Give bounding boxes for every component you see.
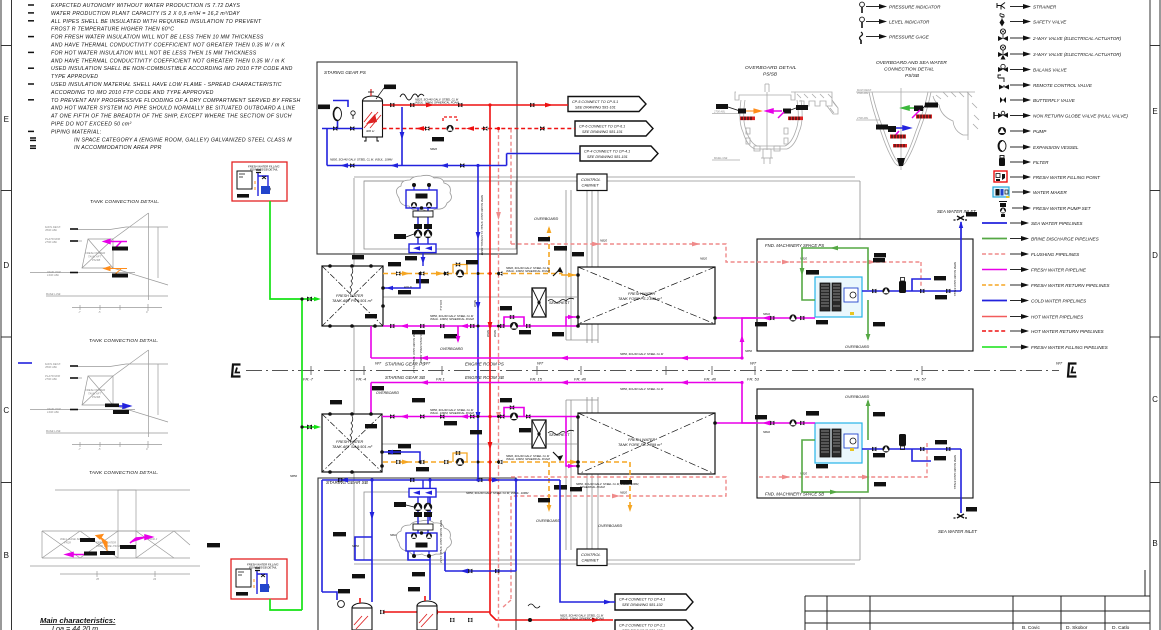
svg-text:WATER MAKER: WATER MAKER [1033,190,1067,195]
legend: remote control valve [998,75,1093,90]
svg-text:OVERBOARD: OVERBOARD [598,524,623,528]
svg-text:C: C [3,406,9,415]
svg-text:D: D [1152,251,1158,260]
svg-text:NB32: NB32 [763,430,770,434]
flushing dashed risers [499,129,928,630]
svg-text:FRESH WATER PUMP SET: FRESH WATER PUMP SET [1033,206,1092,211]
svg-text:FR. 57: FR. 57 [914,377,927,382]
control cabinet PS [577,174,607,191]
svg-text:CABINET: CABINET [582,183,600,188]
CP-2 bottom banner [615,620,693,630]
svg-text:NB20: NB20 [620,491,627,495]
fresh water tank AFT SB [322,414,382,472]
svg-text:FR. 40: FR. 40 [704,377,717,382]
svg-text:TANK AFT SB 9.501 m³: TANK AFT SB 9.501 m³ [332,445,373,449]
svg-text:TO PREVENT ANY PROGRESSIVE FLO: TO PREVENT ANY PROGRESSIVE FLOODING OF A… [51,98,301,104]
svg-text:TANK CONNECTION DETAIL.: TANK CONNECTION DETAIL. [89,338,159,344]
svg-text:OVERBOARD: OVERBOARD [536,519,561,523]
fresh water filling point top (red box) [232,162,287,201]
svg-text:BALANS VALVE: BALANS VALVE [1033,68,1068,73]
svg-text:PRESSURE GAGE: PRESSURE GAGE [889,35,930,40]
svg-text:INSUL. 10MM, SPHERICAL FOAM: INSUL. 10MM, SPHERICAL FOAM [506,269,550,273]
fresh water tank FORE SB [578,413,715,474]
fresh water pump set SB (cloud) [396,520,451,558]
svg-text:IN SPACE CATEGORY A (ENGINE RO: IN SPACE CATEGORY A (ENGINE ROOM, GALLEY… [74,137,292,143]
water maker PS [806,270,862,324]
overboard detail left stub [716,104,728,109]
legend: balans valve [998,64,1068,72]
svg-text:NB50 SCH40 GALV. STEEL CL.M: NB50 SCH40 GALV. STEEL CL.M [439,520,443,563]
svg-text:CONTROL: CONTROL [581,177,601,182]
svg-text:NB32: NB32 [763,312,770,316]
svg-text:NON RETURN GLOBE VALVE (HULL V: NON RETURN GLOBE VALVE (HULL VALVE) [1033,114,1128,119]
legend: fresh water filling pipelines [982,345,1109,351]
svg-text:1400 ABL: 1400 ABL [47,410,60,414]
detail 3 orange branch [96,535,107,552]
svg-text:PS/SB: PS/SB [92,258,100,262]
svg-text:USED INSULATION MATERIAL SHELL: USED INSULATION MATERIAL SHELL HAVE LOW … [51,82,282,88]
tank connection detail 3 drawing [30,490,200,577]
legend: filter [999,156,1049,167]
staring gear PS box [317,62,517,254]
svg-text:NB20: NB20 [430,147,437,151]
svg-text:FRESH WATER FILLING POINT: FRESH WATER FILLING POINT [1033,175,1101,180]
svg-text:AND HOT WATER SYSTEM NO PIPE S: AND HOT WATER SYSTEM NO PIPE SHOULD NORM… [50,106,296,112]
svg-text:TYPE APPROVED: TYPE APPROVED [51,74,98,80]
fresh water pump set PS (cloud) [396,175,451,211]
svg-text:PRESSURE INDICATOR: PRESSURE INDICATOR [889,5,941,10]
calorifier tag [384,85,396,90]
svg-text:B: B [1152,539,1157,548]
svg-text:OVERBOARD: OVERBOARD [376,391,399,395]
svg-text:2-WAY VALVE (ELECTRICAL ACTUAT: 2-WAY VALVE (ELECTRICAL ACTUATOR) [1032,36,1122,41]
legend: pressure indicator [860,2,941,13]
legend: non return globe valve [994,111,1128,119]
fresh water main PS [383,317,578,326]
legend: safety valve [1000,14,1068,27]
CP-6 banner [575,121,653,136]
detail 3 magenta branches [66,535,152,557]
svg-text:AND HAVE THERMAL CONDUCTIVITY: AND HAVE THERMAL CONDUCTIVITY COEFFICIEN… [50,58,285,64]
svg-text:AND HAVE THERMAL CONDUCTIVITY: AND HAVE THERMAL CONDUCTIVITY COEFFICIEN… [50,43,285,49]
svg-text:43: 43 [153,577,157,581]
svg-text:FLUSHING PIPELINES: FLUSHING PIPELINES [1031,252,1080,257]
svg-text:STRAINER: STRAINER [1033,5,1057,10]
svg-text:300 Lt: 300 Lt [366,129,375,133]
frame left strip [1,0,12,630]
svg-text:2700 ABL: 2700 ABL [44,377,58,381]
svg-text:FRESH WATER RETURN PIPELINES: FRESH WATER RETURN PIPELINES [1031,283,1110,288]
legend: fresh water pump set [999,202,1092,218]
hydrophore header PS [409,244,436,266]
svg-text:TANK FORE SB 2.899 m³: TANK FORE SB 2.899 m³ [618,443,662,447]
title block table [805,570,1150,630]
legend: hot water return pipelines [982,329,1105,335]
legend: brine discharge pipelines [982,236,1100,242]
svg-text:TANK AFT PS 9.501 m³: TANK AFT PS 9.501 m³ [332,299,373,303]
svg-text:OVERBOARD: OVERBOARD [534,217,559,221]
svg-text:E: E [1152,107,1157,116]
notes bullet dashes [28,5,36,148]
fresh water tank AFT PS [322,266,383,326]
svg-text:OVERBOARD: OVERBOARD [845,395,870,399]
detail 1 orange branch [104,267,127,277]
svg-text:2700 ABL: 2700 ABL [856,116,869,120]
svg-text:FR. 53: FR. 53 [747,377,760,382]
svg-text:REMOTE CONTROL VALVE: REMOTE CONTROL VALVE [1033,83,1093,88]
svg-text:1400 ABL: 1400 ABL [47,273,60,277]
svg-text:CP-5 CONNECT TO CP-5.1: CP-5 CONNECT TO CP-5.1 [572,100,618,104]
svg-text:FR.1: FR.1 [436,377,445,382]
svg-text:SEA WATER INLET: SEA WATER INLET [938,529,977,534]
svg-text:NB50: NB50 [745,349,752,353]
MAIN CHARACTERISTICS [40,616,116,630]
sea water inlet bottom [954,514,968,518]
svg-text:NB50, SCH40 GALV. STEEL CL.M,: NB50, SCH40 GALV. STEEL CL.M, INSUL. 10M… [466,491,529,495]
svg-text:CP-6 CONNECT TO CP-6.1: CP-6 CONNECT TO CP-6.1 [579,125,625,129]
svg-text:FRESH WATER: FRESH WATER [628,292,656,296]
svg-text:BASE LINE: BASE LINE [46,429,61,433]
svg-text:45: 45 [96,577,100,581]
svg-text:NB50, SCH40 GALV. STEEL CL.M: NB50, SCH40 GALV. STEEL CL.M [620,387,664,391]
svg-text:FOR HOT WATER INSULATION WILL: FOR HOT WATER INSULATION WILL NOT BE LES… [51,50,257,56]
frame right strip [1150,0,1160,630]
svg-text:PIPE DO NOT EXCEED 50 cm²: PIPE DO NOT EXCEED 50 cm² [51,122,132,128]
expansion vessel top box [334,108,342,121]
blue margin dash [18,362,32,364]
svg-text:PS/SB: PS/SB [92,395,100,399]
green line valves [307,297,312,302]
svg-text:WT: WT [537,361,544,366]
svg-text:WT: WT [750,361,757,366]
svg-text:FRESH WATER: FRESH WATER [628,438,656,442]
svg-text:HOT WATER RETURN PIPELINES: HOT WATER RETURN PIPELINES [1031,329,1105,334]
compartment labels [385,362,504,381]
svg-text:C: C [1152,395,1158,404]
legend: 3-way valve electrical actuator [998,45,1122,60]
svg-text:ALL PIPES SHELL BE INSULATED W: ALL PIPES SHELL BE INSULATED WITH REQUIR… [50,19,262,25]
svg-text:COLD WATER PIPELINES: COLD WATER PIPELINES [1031,299,1087,304]
SB cold water network [322,480,615,602]
main hot water risers [383,105,613,620]
sea water detail lower stub [876,125,888,130]
water maker SB [806,411,862,468]
machinery SB piping [802,401,868,492]
fresh water tank FORE PS [578,267,715,324]
svg-text:NB50: NB50 [290,474,297,478]
legend: butterfly valve [1000,97,1076,103]
svg-text:4500 ABL: 4500 ABL [45,365,58,369]
machinery PS piping [802,248,868,339]
svg-text:BASE LINE: BASE LINE [714,156,728,160]
FND machinery space SB box [757,389,973,498]
legend: sea water pipelines [982,221,1083,227]
top box blue piping [322,101,580,481]
svg-text:NB32: NB32 [473,300,477,307]
svg-text:FR. 15: FR. 15 [530,377,543,382]
legend: pump [998,127,1047,135]
svg-text:LEVEL INDICATOR: LEVEL INDICATOR [889,20,930,25]
svg-text:NB50 SCH40 GALV. STEEL CL.M: NB50 SCH40 GALV. STEEL CL.M [412,330,416,373]
legend: flushing pipelines [982,252,1080,258]
svg-text:NB50, SCH40 GALV. STEEL CL.M,: NB50, SCH40 GALV. STEEL CL.M, INSUL. 10M… [330,158,393,162]
svg-text:SAFETY VALVE: SAFETY VALVE [1033,20,1067,25]
svg-text:SEA WATER PIPELINES: SEA WATER PIPELINES [1031,221,1083,226]
svg-text:D. Skobor: D. Skobor [1066,625,1088,630]
svg-text:CP-4 CONNECT TO CP-4.1: CP-4 CONNECT TO CP-4.1 [584,150,630,154]
frame labels [303,377,927,382]
svg-text:HOLD ⌀: HOLD ⌀ [439,300,443,311]
hot water supply PS [383,104,569,106]
svg-text:CABINET: CABINET [582,558,600,563]
svg-text:PS/SB: PS/SB [763,72,778,78]
FND machinery space PS box [757,239,973,351]
svg-text:FRESH WATER: FRESH WATER [336,294,364,298]
green filling line riser [270,201,318,610]
svg-text:E: E [4,115,9,124]
junction dots on risers [488,272,491,482]
svg-text:PS/SB: PS/SB [905,73,920,79]
svg-text:4500 ABL: 4500 ABL [857,91,869,95]
svg-text:PIPING MATERIAL:: PIPING MATERIAL: [51,129,102,135]
detail 1 magenta branch [104,240,127,251]
pump columns PS [394,208,433,244]
svg-text:FROST R TEMPERATURE HIGHER THE: FROST R TEMPERATURE HIGHER THEN 60°C [51,27,174,33]
fresh water main SB [382,408,578,467]
svg-text:CONTROL: CONTROL [581,552,601,557]
svg-text:INSUL. 10MM, SPHERICAL FOAM: INSUL. 10MM, SPHERICAL FOAM [430,317,474,321]
legend: level indicator [860,17,930,28]
seachest SB [532,420,570,448]
WT labels [375,361,1063,366]
legend: water maker [993,187,1067,198]
magenta from water maker SB [742,422,815,424]
svg-text:FILTER: FILTER [1033,160,1049,165]
svg-text:NB50 SCH40 GALV.STEEL: NB50 SCH40 GALV.STEEL [953,455,957,490]
svg-text:EXPANSION VESSEL: EXPANSION VESSEL [1033,145,1079,150]
svg-text:AT ONE FIFTH OF THE BREADTH OF: AT ONE FIFTH OF THE BREADTH OF THE SHIP,… [50,114,292,120]
hot water calorifier PS [363,89,383,141]
svg-text:FRESH WATER: FRESH WATER [336,440,364,444]
seachest hoses [548,298,574,302]
svg-text:-5: -5 [98,447,101,451]
svg-text:NB32: NB32 [486,330,490,337]
svg-text:SEE DRAWING 581-101: SEE DRAWING 581-101 [587,155,628,159]
zone letters right [1152,107,1158,548]
svg-text:NB20: NB20 [800,257,807,261]
svg-text:NB20: NB20 [600,239,607,243]
svg-text:NB50 SCH40 GALV.STEEL: NB50 SCH40 GALV.STEEL [953,262,957,297]
centreline [246,370,1059,372]
svg-text:NB50: NB50 [352,544,359,548]
svg-text:FRESH WATER FILLING PIPELINES: FRESH WATER FILLING PIPELINES [1031,345,1109,350]
circulation pump [446,125,453,132]
svg-text:TANK CONNECTION DETAIL.: TANK CONNECTION DETAIL. [89,470,159,476]
svg-text:-7: -7 [78,447,81,451]
svg-text:POINT PS/SB DETAIL: POINT PS/SB DETAIL [250,168,278,172]
legend: fresh water pipeline [982,267,1087,273]
svg-text:B: B [4,551,9,560]
overboard detail right stub [796,105,808,110]
svg-text:CP-2 CONNECT TO CP-2.1: CP-2 CONNECT TO CP-2.1 [619,624,665,628]
svg-text:ACCORDING TO IMO 2010 FTP CODE: ACCORDING TO IMO 2010 FTP CODE AND TYPE … [50,90,214,96]
svg-text:FRESH WATER PIPELINE: FRESH WATER PIPELINE [1031,268,1087,273]
svg-text:NB20: NB20 [700,257,707,261]
legend: hot water pipelines [982,314,1084,320]
hose top [400,94,424,100]
svg-text:OVERBOARD DETAIL: OVERBOARD DETAIL [745,65,797,71]
svg-text:WATER PRODUCTION PLANT CAPACIT: WATER PRODUCTION PLANT CAPACITY IS 2 X 0… [51,11,240,17]
svg-text:BUTTERFLY VALVE: BUTTERFLY VALVE [1033,98,1076,103]
svg-text:TANK CONNECTION DETAIL.: TANK CONNECTION DETAIL. [90,199,160,205]
legend: fresh water return pipelines [982,283,1110,289]
svg-text:NB20: NB20 [800,472,807,476]
tank connection detail 2 drawing [30,350,168,448]
svg-text:SPHERICAL FOAM: SPHERICAL FOAM [580,485,605,489]
svg-text:Loa = 44.20 m: Loa = 44.20 m [52,624,98,630]
orange flushing line SB [383,462,630,510]
svg-text:OVERBOARD: OVERBOARD [440,347,463,351]
svg-text:CONNECTION DETAIL: CONNECTION DETAIL [884,67,934,73]
svg-text:SEE DRAWING 581-101: SEE DRAWING 581-101 [582,130,623,134]
legend: cold water pipelines [982,298,1087,304]
svg-text:D. Catlo: D. Catlo [1112,625,1130,630]
svg-text:2700 ABL: 2700 ABL [713,110,726,114]
hydrophore header SB [409,480,436,497]
CP-4 banner [580,146,658,161]
seachest PS [532,288,570,317]
svg-text:INSUL. 15MM, SPHERICAL FOAM: INSUL. 15MM, SPHERICAL FOAM [560,617,604,621]
fresh water filling point bottom (red box) [231,559,287,599]
legend: 2-way valve electrical actuator [998,29,1122,41]
svg-text:OVERBOARD: OVERBOARD [845,345,870,349]
svg-text:B. Covic: B. Covic [1022,625,1040,630]
svg-text:FOR FRESH WATER INSULATION WIL: FOR FRESH WATER INSULATION WILL NOT BE L… [51,35,264,41]
tank penetration dots [300,264,716,474]
svg-text:BRINE DISCHARGE PIPELINES: BRINE DISCHARGE PIPELINES [1031,237,1100,242]
svg-text:BASE LINE: BASE LINE [46,292,61,296]
tank connection detail 1 drawing [30,213,168,311]
svg-text:OVERBOARD AND SEA WATER: OVERBOARD AND SEA WATER [876,60,947,66]
svg-text:POINT PS/SB DETAIL: POINT PS/SB DETAIL [249,566,277,570]
control cabinet SB [577,549,607,566]
svg-text:EXPECTED AUTONOMY WITHOUT WATE: EXPECTED AUTONOMY WITHOUT WATER PRODUCTI… [51,3,240,9]
detail 2 blue branch [106,404,130,408]
svg-text:CP-4 CONNECT TO CP-4.1: CP-4 CONNECT TO CP-4.1 [619,598,665,602]
svg-text:2700 ABL: 2700 ABL [44,240,58,244]
svg-text:WT: WT [424,361,431,366]
svg-text:PPR PIPES INSUL.10MM: PPR PIPES INSUL.10MM [419,330,423,363]
overboard detail hull section [712,84,838,164]
svg-text:IN ACCOMMODATION AREA PPR: IN ACCOMMODATION AREA PPR [74,145,162,151]
legend: fresh water filling point [994,171,1101,182]
sea water feed SB [862,449,961,498]
svg-text:4500 ABL: 4500 ABL [45,228,58,232]
legend: pressure gage [860,32,930,44]
sea water feed PS [862,239,961,291]
legend: expansion vessel [998,141,1079,152]
svg-text:INSUL. 10MM, SPHERICAL FOAM: INSUL. 10MM, SPHERICAL FOAM [506,457,550,461]
orange flushing line PS [383,228,576,275]
svg-text:INSUL. 10MM, SPHERICAL FOAM: INSUL. 10MM, SPHERICAL FOAM [430,411,474,415]
svg-text:TANK FORE PS 2.899 m³: TANK FORE PS 2.899 m³ [618,297,662,301]
svg-text:USED INSULATION SHELL BE NON-C: USED INSULATION SHELL BE NON-COMBUSTIBLE… [51,66,293,72]
svg-text:PUMP: PUMP [1033,129,1047,134]
svg-text:NB50 SCH40 GALV. STEEL CL.M IN: NB50 SCH40 GALV. STEEL CL.M INSUL.10MM [480,195,484,256]
svg-text:WT: WT [1056,361,1063,366]
title block names [1022,625,1130,630]
gray compartment structure [322,177,860,564]
magenta from water maker PS [742,317,815,319]
svg-text:-5: -5 [98,310,101,314]
overboard sea water hull section [856,88,979,170]
svg-text:NB32: NB32 [493,330,497,337]
svg-text:FR28: FR28 [64,541,71,545]
sea water detail upper stub [902,106,916,110]
centreline symbol left [232,365,241,377]
svg-text:TANK FORE PS/SB: TANK FORE PS/SB [96,544,121,548]
hot water return PS (dashed) [383,128,576,130]
cold water to tank SB [383,452,420,462]
legend: strainer [997,3,1057,10]
cold water to tank PS [383,274,420,289]
pump columns SB [394,497,433,533]
frame tick marks [311,366,922,375]
svg-text:FR. 40: FR. 40 [574,377,587,382]
CP-4 bottom banner [615,594,693,610]
CP-5 banner [568,97,646,112]
svg-text:SEE DRAWING 581-102: SEE DRAWING 581-102 [622,603,663,607]
svg-text:NB50, SCH40 GALV. STEEL CL.M: NB50, SCH40 GALV. STEEL CL.M [620,352,664,356]
svg-text:STARING GEAR PS: STARING GEAR PS [324,70,367,75]
svg-text:FR.-4: FR.-4 [356,377,367,382]
bottom calorifier SB 1 [338,589,372,630]
staring gear SB box [318,478,516,630]
bottom calorifier SB 2 [408,587,437,630]
valves on top box lines [333,103,544,168]
centreline symbol right [1068,364,1077,377]
svg-text:HOLD: HOLD [404,285,412,289]
svg-text:D: D [3,261,9,270]
svg-text:WT: WT [375,361,382,366]
zone letters left [3,115,9,560]
fresh water distribution near centreline [371,318,757,423]
svg-text:HOT WATER PIPELINES: HOT WATER PIPELINES [1031,315,1084,320]
svg-text:FR.-7: FR.-7 [303,377,314,382]
svg-text:-7: -7 [78,310,81,314]
svg-text:INSUL. 15MM, SPHERICAL FOAM: INSUL. 15MM, SPHERICAL FOAM [415,100,459,104]
svg-text:3-WAY VALVE (ELECTRICAL ACTUAT: 3-WAY VALVE (ELECTRICAL ACTUATOR) [1033,52,1122,57]
notes text block [50,3,301,151]
svg-text:STARING GEAR SB: STARING GEAR SB [385,375,425,380]
svg-text:SEE DRAWING 581-101: SEE DRAWING 581-101 [575,106,616,110]
